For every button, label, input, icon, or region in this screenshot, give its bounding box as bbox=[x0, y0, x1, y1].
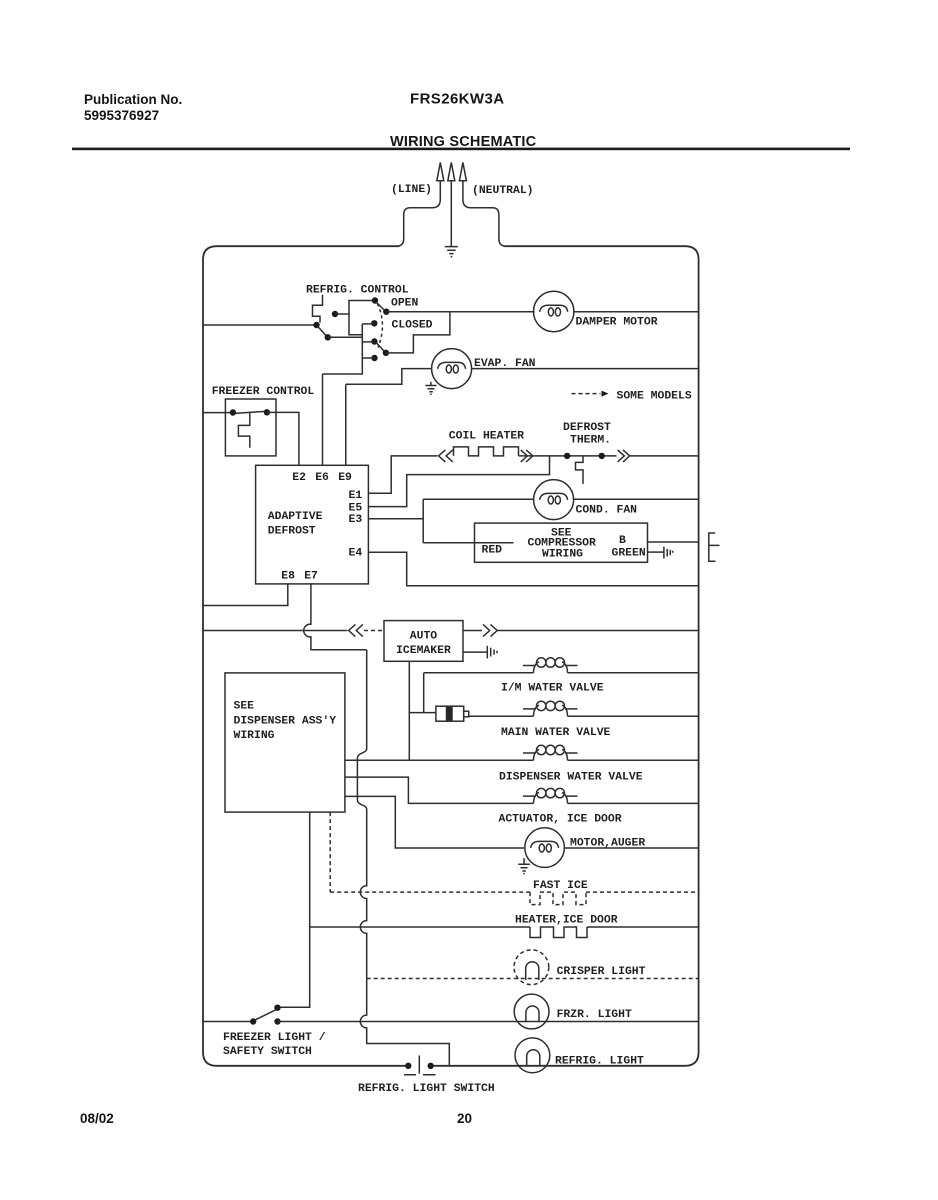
wire evap fan to right edge bbox=[471, 368, 698, 370]
svg-text:E9: E9 bbox=[338, 472, 352, 484]
wire I/M valve to right edge bbox=[568, 672, 699, 674]
wire freezer control to E2 bbox=[267, 412, 299, 465]
refrig light switch contact left bbox=[405, 1063, 411, 1069]
wire contact F to bus bbox=[362, 323, 374, 325]
wire defrost therm to right edge bbox=[630, 455, 699, 457]
svg-text:RED: RED bbox=[482, 544, 503, 556]
wire line entry bend bbox=[398, 181, 440, 246]
svg-text:SOME MODELS: SOME MODELS bbox=[617, 391, 692, 403]
wire dispenser box to freezer switch bus bbox=[280, 812, 310, 1007]
svg-text:REFRIG. LIGHT: REFRIG. LIGHT bbox=[555, 1056, 644, 1068]
svg-text:E7: E7 bbox=[304, 571, 318, 583]
refrig control contact B bbox=[325, 334, 331, 340]
svg-text:20: 20 bbox=[457, 1111, 472, 1126]
wire E4 to right edge bbox=[368, 552, 698, 586]
wire left bus to refrig control bbox=[203, 324, 314, 326]
wire switch frame bbox=[349, 301, 372, 335]
wire connector to main valve bbox=[469, 715, 534, 717]
svg-text:CLOSED: CLOSED bbox=[392, 320, 433, 332]
fast ice heater R2 dashed bbox=[530, 892, 586, 905]
svg-text:I/M WATER VALVE: I/M WATER VALVE bbox=[501, 683, 604, 695]
wire actuator feed bbox=[345, 777, 534, 803]
dashed crisper row bbox=[367, 978, 699, 980]
svg-text:MAIN WATER VALVE: MAIN WATER VALVE bbox=[501, 727, 611, 739]
wire E6 riser bbox=[322, 374, 324, 465]
wire contact B to bus bbox=[328, 336, 363, 338]
wire dispenser valve to right edge bbox=[568, 759, 699, 761]
svg-text:SEE: SEE bbox=[234, 701, 255, 713]
wire evap fan feed from E9 bbox=[346, 369, 432, 385]
adaptive defrost box U1 bbox=[256, 465, 369, 584]
wire damper motor to right edge bbox=[574, 311, 699, 313]
I/M water valve coil L1 bbox=[523, 658, 578, 673]
svg-text:B: B bbox=[619, 535, 626, 547]
wire heater ice door row left bbox=[310, 926, 530, 928]
svg-text:REFRIG. LIGHT SWITCH: REFRIG. LIGHT SWITCH bbox=[358, 1083, 495, 1095]
legend arrowhead bbox=[602, 391, 609, 397]
evap fan winding bbox=[438, 362, 466, 373]
dispenser water valve coil L3 bbox=[523, 745, 578, 760]
refrig control lever A-B bbox=[318, 326, 327, 336]
cond fan winding bbox=[540, 493, 568, 504]
actuator ice door coil L4 bbox=[523, 788, 578, 803]
evap fan circle M2 bbox=[432, 349, 472, 389]
motor auger winding bbox=[531, 841, 559, 852]
svg-text:(LINE): (LINE) bbox=[391, 184, 432, 196]
freezer control lever bbox=[235, 411, 266, 413]
main water valve coil L2 bbox=[523, 701, 578, 716]
svg-text:ADAPTIVE: ADAPTIVE bbox=[268, 511, 323, 523]
connector arrows left of icemaker bbox=[349, 624, 363, 636]
svg-text:WIRING: WIRING bbox=[234, 730, 275, 742]
connector arrows left of coil heater bbox=[439, 450, 453, 462]
connector arrows right of defrost therm bbox=[618, 450, 630, 462]
svg-text:WIRING: WIRING bbox=[542, 549, 583, 561]
refrig control contact F closed bbox=[371, 320, 377, 326]
svg-text:(NEUTRAL): (NEUTRAL) bbox=[472, 185, 534, 197]
freezer control contact right bbox=[264, 409, 270, 415]
connector arrows right of icemaker bbox=[483, 624, 497, 636]
see dispenser box bbox=[225, 673, 345, 812]
refrig light switch contact right bbox=[428, 1063, 434, 1069]
svg-text:COIL HEATER: COIL HEATER bbox=[449, 431, 524, 443]
connector arrows right of coil heater bbox=[521, 450, 533, 462]
neutral input arrow bbox=[459, 163, 466, 181]
svg-text:COND. FAN: COND. FAN bbox=[576, 505, 638, 517]
main vertical bus with hops bbox=[357, 650, 449, 1066]
wire ground shaft bbox=[450, 181, 452, 246]
wire I/M valve return drop bbox=[423, 673, 425, 713]
refrig light switch plunger S2 bbox=[404, 1056, 436, 1075]
wire icemaker to right edge bbox=[463, 630, 482, 632]
wire freezer light row bbox=[278, 1021, 699, 1023]
wire left bus to freezer control bbox=[203, 412, 231, 414]
svg-text:Publication No.: Publication No. bbox=[84, 92, 182, 107]
ground at motor auger bbox=[518, 858, 530, 874]
dashed wire into icemaker bbox=[364, 630, 384, 632]
wire B lead to right edge bbox=[648, 541, 699, 543]
freezer switch contact right bbox=[274, 1018, 280, 1024]
wire left edge to freezer switch bbox=[203, 1021, 250, 1023]
heater ice door R3 bbox=[530, 927, 587, 938]
svg-text:DISPENSER ASS'Y: DISPENSER ASS'Y bbox=[234, 716, 337, 728]
dashed legend wire bbox=[572, 393, 601, 395]
refrig light lamp DS3 bbox=[515, 1038, 550, 1073]
dashed fast ice row left bbox=[330, 891, 530, 893]
wire drop to dispenser valve row bbox=[408, 713, 410, 761]
svg-text:THERM.: THERM. bbox=[570, 435, 611, 447]
freezer control sensor element bbox=[238, 413, 249, 448]
wire I/M water valve row left bbox=[424, 672, 534, 674]
freezer switch contact top bbox=[274, 1005, 280, 1011]
svg-text:E5: E5 bbox=[349, 503, 363, 515]
refrig control lever D-E bbox=[376, 302, 385, 310]
svg-text:GREEN: GREEN bbox=[612, 547, 646, 559]
enclosure outline right/top/bottom bbox=[434, 246, 699, 1066]
refrig control contact D bbox=[372, 297, 378, 303]
connector plug P1 bbox=[436, 706, 469, 721]
wire motor auger to right edge bbox=[564, 847, 698, 849]
frzr light lamp DS2 bbox=[514, 994, 549, 1029]
svg-text:OPEN: OPEN bbox=[391, 298, 419, 310]
svg-text:5995376927: 5995376927 bbox=[84, 108, 159, 123]
svg-text:FRS26KW3A: FRS26KW3A bbox=[410, 91, 504, 108]
wire E9 riser bbox=[345, 384, 347, 465]
wire left edge to auto icemaker bbox=[203, 630, 348, 632]
svg-text:REFRIG. CONTROL: REFRIG. CONTROL bbox=[306, 285, 409, 297]
wire RED lead to compressor bbox=[423, 542, 513, 544]
crisper light lamp DS1 dashed circle bbox=[514, 950, 549, 985]
compressor wiring box bbox=[475, 523, 648, 562]
svg-text:E4: E4 bbox=[349, 548, 363, 560]
defrost therm terminal 2 bbox=[599, 453, 605, 459]
wire cond fan to right edge bbox=[574, 498, 699, 500]
ground at icemaker bbox=[487, 646, 497, 659]
svg-text:ICEMAKER: ICEMAKER bbox=[396, 645, 451, 657]
damper motor winding bbox=[540, 305, 568, 316]
wire cond fan feed bbox=[423, 498, 533, 500]
ground symbol at power entry bbox=[445, 247, 458, 257]
freezer control contact left bbox=[230, 409, 236, 415]
wire E2 staircase to damper line bbox=[386, 312, 450, 353]
svg-text:CRISPER LIGHT: CRISPER LIGHT bbox=[557, 966, 646, 978]
freezer switch lever bbox=[255, 1010, 276, 1020]
svg-text:FAST ICE: FAST ICE bbox=[533, 880, 588, 892]
svg-text:FRZR. LIGHT: FRZR. LIGHT bbox=[557, 1009, 632, 1021]
svg-text:DEFROST: DEFROST bbox=[268, 526, 316, 538]
wire heater ice door to right edge bbox=[587, 926, 699, 928]
frzr lamp filament bbox=[526, 1006, 539, 1022]
svg-text:HEATER,ICE DOOR: HEATER,ICE DOOR bbox=[515, 915, 618, 927]
svg-text:DISPENSER WATER VALVE: DISPENSER WATER VALVE bbox=[499, 772, 643, 784]
refrig control sensor element bbox=[313, 295, 323, 323]
dashed fast ice row right bbox=[586, 891, 699, 893]
refrig control contact H bbox=[371, 355, 377, 361]
dashed fast ice drop bbox=[329, 812, 331, 892]
wire icemaker bottom pin bbox=[409, 661, 436, 712]
ground input arrow bbox=[448, 163, 455, 181]
svg-text:SAFETY SWITCH: SAFETY SWITCH bbox=[223, 1046, 312, 1058]
freezer switch contact left bbox=[250, 1018, 256, 1024]
wire open contact to damper motor bbox=[386, 311, 534, 313]
wire E3 junction riser bbox=[368, 499, 423, 542]
svg-text:AUTO: AUTO bbox=[410, 631, 438, 643]
svg-text:FREEZER LIGHT /: FREEZER LIGHT / bbox=[223, 1032, 326, 1044]
cond fan circle M3 bbox=[534, 480, 574, 520]
dashed linkage arc bbox=[377, 304, 382, 348]
line input arrow bbox=[437, 163, 444, 181]
refrig control contact C bbox=[332, 311, 338, 317]
wire icemaker ground lead bbox=[463, 651, 487, 653]
wire E1 to coil heater bbox=[368, 456, 437, 493]
svg-text:E3: E3 bbox=[349, 514, 363, 526]
svg-text:FREEZER CONTROL: FREEZER CONTROL bbox=[212, 386, 315, 398]
wire dispenser valve row bbox=[345, 759, 534, 761]
wire E8 to left edge bbox=[203, 584, 288, 606]
wire E5 riser to coil heater line bbox=[368, 456, 549, 507]
refrig control contact E2 bbox=[383, 350, 389, 356]
bracket at right edge bbox=[709, 533, 720, 561]
svg-text:ACTUATOR, ICE DOOR: ACTUATOR, ICE DOOR bbox=[499, 814, 622, 826]
wire motor auger feed bbox=[345, 796, 525, 848]
wire actuator to right edge bbox=[568, 802, 699, 804]
coil heater resistor R1 bbox=[454, 447, 519, 456]
wire GREEN lead bbox=[648, 551, 664, 553]
wire after icemaker arrows bbox=[497, 630, 698, 632]
defrost therm element S1 bbox=[576, 456, 584, 484]
auto icemaker box U2 bbox=[384, 621, 463, 662]
svg-text:DAMPER MOTOR: DAMPER MOTOR bbox=[576, 317, 658, 329]
wire neutral entry bend bbox=[463, 181, 505, 246]
wire E7 bus with hop over icemaker line bbox=[304, 584, 367, 650]
wire main valve to right edge bbox=[568, 715, 699, 717]
svg-text:E8: E8 bbox=[281, 571, 295, 583]
freezer control box bbox=[225, 399, 276, 456]
refrig lamp filament bbox=[527, 1050, 540, 1066]
enclosure outline left/top/bottom bbox=[203, 246, 405, 1066]
defrost therm terminal 1 bbox=[564, 453, 570, 459]
svg-text:08/02: 08/02 bbox=[80, 1111, 114, 1126]
refrig control contact A bbox=[313, 322, 319, 328]
svg-text:DEFROST: DEFROST bbox=[563, 422, 611, 434]
header rule bbox=[72, 148, 850, 151]
wire refrig control bus vertical bbox=[323, 324, 363, 374]
svg-text:E1: E1 bbox=[349, 490, 363, 502]
crisper lamp filament bbox=[526, 962, 539, 980]
damper motor circle M1 bbox=[534, 291, 574, 331]
refrig control lever G-E2 bbox=[376, 343, 384, 352]
refrig control contact E open bbox=[383, 309, 389, 315]
wire contact G to bus bbox=[362, 341, 374, 343]
wire contact C stub bbox=[335, 313, 349, 315]
svg-text:E2: E2 bbox=[292, 472, 306, 484]
svg-text:E6: E6 bbox=[315, 472, 329, 484]
ground at evap fan bbox=[425, 382, 436, 395]
motor auger circle M4 bbox=[525, 828, 565, 868]
refrig control contact G bbox=[371, 338, 377, 344]
wire contact H to bus bbox=[362, 357, 374, 359]
wire coil heater to defrost therm bbox=[519, 455, 617, 457]
ground at compressor green bbox=[664, 547, 673, 559]
